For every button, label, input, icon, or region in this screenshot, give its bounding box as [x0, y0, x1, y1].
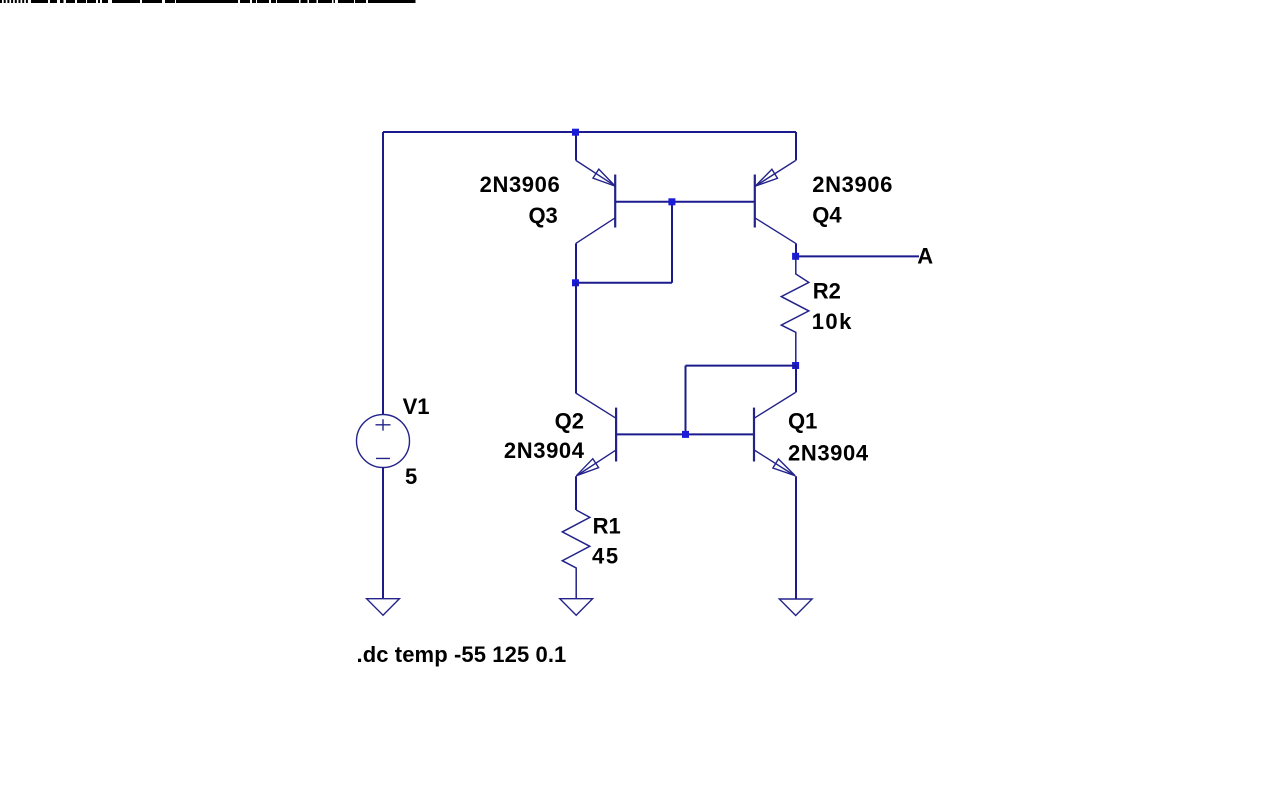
wire down to base node: [685, 366, 687, 435]
svg-text:45: 45: [592, 544, 620, 569]
wire base node across: [576, 282, 673, 284]
node junction bases: [682, 431, 689, 438]
voltage source V1: [357, 415, 410, 468]
svg-text:A: A: [917, 244, 933, 269]
svg-text:2N3904: 2N3904: [788, 440, 869, 465]
wire Q4 emitter lead: [795, 132, 797, 161]
clipped window title text strip: [0, 0, 416, 3]
transistor Q1 (NPN): [754, 392, 796, 476]
svg-text:V1: V1: [403, 394, 430, 419]
svg-text:2N3904: 2N3904: [504, 438, 585, 463]
node junction base rail: [668, 198, 675, 205]
wire R2 bottom across: [686, 365, 796, 367]
wire Q4 collector to node A: [795, 243, 797, 256]
wire Q2 base lead: [616, 433, 686, 435]
wire node A out: [796, 255, 919, 257]
resistor R1: [562, 510, 590, 599]
ground (right): [779, 599, 812, 616]
transistor Q3 (PNP): [576, 161, 616, 244]
svg-text:Q2: Q2: [555, 408, 584, 433]
wire base node down: [671, 202, 673, 283]
wire Q3 collector down: [575, 243, 577, 282]
svg-text:10k: 10k: [812, 309, 853, 334]
wire Q2 collector up: [575, 283, 577, 393]
wire R2 bottom to Q1 collector: [795, 366, 797, 393]
svg-text:Q1: Q1: [788, 408, 817, 433]
svg-text:.dc temp -55 125 0.1: .dc temp -55 125 0.1: [357, 642, 567, 667]
svg-text:Q3: Q3: [528, 203, 557, 228]
node junction A: [792, 253, 799, 260]
node junction top rail: [572, 129, 579, 136]
node junction R2 bottom: [792, 362, 799, 369]
resistor R2: [781, 256, 809, 365]
svg-text:2N3906: 2N3906: [480, 172, 561, 197]
ground (left): [367, 599, 400, 616]
transistor Q4 (PNP): [755, 161, 796, 244]
svg-text:Q4: Q4: [812, 203, 842, 228]
wire top rail: [383, 131, 796, 133]
wire Q3 base to Q4 base: [615, 201, 755, 203]
ground (middle): [560, 599, 593, 616]
svg-text:R2: R2: [813, 279, 841, 304]
transistor Q2 (NPN): [576, 393, 617, 476]
wire Q1 emitter to ground: [795, 476, 797, 599]
wire V1 to ground: [382, 468, 384, 600]
node junction Q3 collector: [572, 279, 579, 286]
svg-text:2N3906: 2N3906: [812, 172, 893, 197]
wire Q3 emitter lead: [575, 132, 577, 161]
wire left vertical to V1: [382, 132, 384, 415]
svg-text:5: 5: [405, 464, 417, 489]
svg-text:R1: R1: [593, 514, 621, 539]
wire Q2 emitter to R1: [575, 476, 577, 510]
wire base node to Q1 base: [686, 433, 755, 435]
